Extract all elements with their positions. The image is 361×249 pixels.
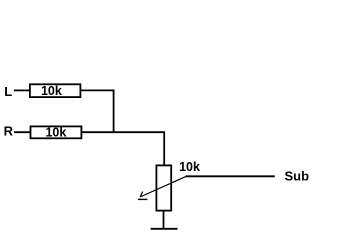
resistor R2 <box>31 126 82 140</box>
wire L to R1 <box>14 89 30 91</box>
wire R2 to pot corner <box>82 131 166 133</box>
wire vertical down to R wire junction <box>113 90 115 132</box>
svg-text:10k: 10k <box>45 126 66 140</box>
wire R1 to junction corner <box>81 89 115 91</box>
wire vertical down to potentiometer top <box>163 132 165 165</box>
ground <box>151 228 178 230</box>
svg-text:10k: 10k <box>41 84 62 98</box>
svg-text:R: R <box>4 124 14 139</box>
pot wiper arrowhead barb horizontal <box>138 198 147 200</box>
wire pot bottom to ground <box>163 211 165 229</box>
potentiometer VR1 body <box>156 165 171 210</box>
wire R to R2 <box>14 131 31 133</box>
pot wiper arrow diagonal <box>140 176 186 197</box>
resistor R1 <box>30 84 81 98</box>
pot wiper arrowhead barb up <box>140 192 143 197</box>
svg-text:L: L <box>4 84 12 99</box>
wire wiper to Sub <box>186 175 275 177</box>
svg-text:Sub: Sub <box>285 169 310 184</box>
svg-text:10k: 10k <box>179 160 200 174</box>
